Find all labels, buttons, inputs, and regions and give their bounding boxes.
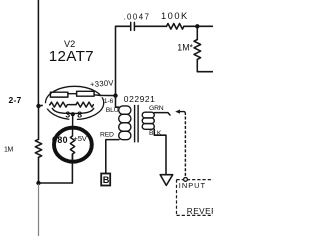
svg-text:1M*: 1M* — [177, 42, 193, 52]
svg-text:B: B — [103, 175, 110, 185]
svg-text:INPUT: INPUT — [179, 181, 206, 190]
svg-text:022921: 022921 — [124, 94, 156, 104]
wire bus continues down (faint) — [38, 185, 40, 237]
capacitor .0047 plates — [130, 22, 132, 30]
wire grids tie — [69, 104, 76, 106]
terminal circle input — [184, 178, 188, 182]
wire ground bus horizontal — [39, 182, 73, 184]
transformer core — [135, 105, 139, 142]
svg-text:+5V: +5V — [74, 134, 88, 143]
wire cathode down to bus — [71, 154, 73, 183]
wire cathode down — [72, 114, 74, 136]
wire 100K to right edge — [184, 25, 213, 27]
wire 1M lead — [38, 106, 40, 139]
arrow to reverb input — [175, 110, 180, 114]
svg-text:1M: 1M — [4, 147, 13, 154]
svg-text:680: 680 — [52, 135, 68, 145]
wire plate to node — [94, 94, 115, 97]
envelope gaps — [43, 103, 49, 108]
wire BLK secondary to ground — [154, 129, 166, 174]
wire 1M to ground bus — [38, 157, 40, 183]
wire node to grid — [39, 105, 51, 106]
wire node to 1M — [196, 26, 198, 39]
wire 1M to right edge — [197, 59, 213, 71]
svg-text:8: 8 — [77, 110, 82, 120]
ground triangle — [160, 175, 173, 186]
svg-text:REVERB: REVERB — [187, 207, 213, 216]
wire cap to 100K — [135, 25, 167, 27]
plate box left (pin 1) — [50, 92, 68, 97]
node 2-7 junction dot — [36, 104, 40, 108]
svg-text:12AT7: 12AT7 — [49, 48, 94, 65]
wire BLU plate node to transformer — [116, 96, 120, 108]
resistor 1M* — [194, 40, 201, 60]
svg-text:BLK: BLK — [149, 130, 162, 137]
node cathode junction dot — [71, 112, 75, 116]
svg-text:BLU: BLU — [106, 107, 119, 114]
svg-text:100K: 100K — [161, 11, 189, 21]
reverb unit dashed box — [177, 180, 214, 216]
shielded cable dashed — [184, 117, 186, 177]
svg-text:RED: RED — [100, 132, 114, 139]
cathode circle (thick ring) — [54, 128, 92, 162]
node ground bus junction dot — [36, 181, 40, 185]
plate box right (pin 6) — [77, 91, 95, 96]
grid zigzag left (pin 2) — [50, 102, 67, 107]
transformer primary winding — [119, 106, 131, 114]
wire grid feed vertical from top — [37, 0, 39, 106]
resistor 680 cathode — [70, 136, 74, 154]
node plate junction dot — [113, 93, 117, 97]
resistor 100K — [167, 24, 184, 30]
resistor 1M grid — [35, 139, 41, 157]
svg-text:3: 3 — [65, 110, 70, 120]
svg-text:.0047: .0047 — [123, 12, 150, 21]
wire plates tie — [68, 93, 77, 95]
wire GRN secondary lead — [154, 113, 170, 115]
node output junction dot — [195, 24, 199, 28]
cathode dish (pins 3,8) — [52, 108, 93, 113]
svg-text:GRN: GRN — [149, 105, 164, 112]
wire RED primary to B — [106, 140, 119, 174]
tube V2 envelope ellipse — [46, 86, 104, 119]
wire 680 to bus — [72, 154, 74, 160]
terminal B box — [101, 174, 110, 186]
svg-text:+330V: +330V — [90, 78, 115, 89]
svg-text:2-7: 2-7 — [9, 95, 22, 105]
wire plate node up to cap — [116, 26, 131, 95]
transformer secondary winding — [142, 112, 154, 118]
grid zigzag right (pin 7) — [76, 102, 93, 107]
svg-text:1-6: 1-6 — [104, 98, 114, 105]
